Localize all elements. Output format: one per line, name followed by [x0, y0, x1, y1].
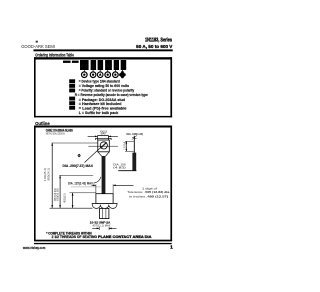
- outline box top bar: [34, 126, 172, 128]
- stud thread line 2: [105, 208, 107, 218]
- svg-text:R = Reverse polarity (anode to: R = Reverse polarity (anode to case) ver…: [75, 93, 148, 97]
- svg-text:GOOD-ARK SEMI: GOOD-ARK SEMI: [21, 44, 55, 50]
- note badge 6: [69, 106, 75, 110]
- overall height dim line: [51, 143, 53, 208]
- base height label: [63, 193, 67, 203]
- svg-text:0: 0: [92, 64, 94, 68]
- svg-text:in inches .495 (12.57): in inches .495 (12.57): [129, 194, 168, 198]
- stud: [100, 208, 109, 218]
- mid height dim line: [59, 175, 61, 208]
- svg-text:= Device type 1N4 standard: = Device type 1N4 standard: [79, 79, 120, 83]
- lead detail dim line: [126, 141, 128, 151]
- outline box bottom border: [34, 240, 172, 242]
- svg-text:DIA .048(1.22): DIA .048(1.22): [127, 132, 144, 136]
- svg-text:.630(16.00): .630(16.00): [55, 188, 59, 201]
- outline box left border: [34, 126, 36, 241]
- extension line mid: [59, 174, 93, 176]
- extension line can top: [70, 192, 96, 194]
- ordering box top bar: [34, 57, 172, 59]
- stud thread line 1: [102, 208, 104, 218]
- circle slash: [101, 142, 107, 148]
- note circle 3: [97, 70, 103, 77]
- svg-text:www.vishay.com: www.vishay.com: [22, 245, 46, 250]
- svg-text:PLANE CONTACT AREA DIA: PLANE CONTACT AREA DIA: [98, 235, 152, 239]
- svg-text:.950(24.1): .950(24.1): [46, 168, 50, 181]
- can body: [96, 194, 113, 204]
- svg-text:= Voltage rating 50 to 600 vol: = Voltage rating 50 to 600 volts: [79, 84, 129, 88]
- svg-text:MAX: MAX: [101, 132, 106, 136]
- part number box 3: [98, 60, 104, 70]
- body centerline: [88, 145, 118, 147]
- lead detail thick wire: [132, 153, 136, 171]
- can dia arrows: [92, 184, 134, 186]
- prefix label dash GPP: [63, 61, 71, 63]
- svg-text:8: 8: [99, 64, 101, 68]
- svg-text:8: 8: [115, 64, 117, 68]
- ordering box bottom border: [34, 116, 172, 118]
- part number box 5: [114, 60, 119, 70]
- note badge 3: [69, 89, 75, 93]
- svg-text:Ordering Information Table: Ordering Information Table: [35, 52, 74, 57]
- leader to glass body: [85, 143, 106, 163]
- note circle 4: [105, 70, 111, 77]
- note badge 5: [69, 101, 75, 105]
- ordering box left border: [34, 57, 36, 117]
- can dia extension right: [112, 184, 114, 193]
- lead detail seat line: [118, 170, 136, 172]
- note badge 2: [69, 84, 75, 88]
- prefix label dash 1N: [72, 61, 79, 63]
- svg-text:.437(11.1) MAX: .437(11.1) MAX: [92, 224, 111, 228]
- body: [98, 140, 110, 152]
- svg-text:(4.83): (4.83): [113, 166, 126, 170]
- svg-text:DIA .135(3.43) MAX: DIA .135(3.43) MAX: [68, 182, 94, 186]
- svg-text:2 1/2 THREADS OF SEATING: 2 1/2 THREADS OF SEATING: [52, 235, 98, 239]
- base height dim line: [72, 193, 74, 208]
- part number box 4: [105, 60, 112, 70]
- svg-text:50 A, 50 to 600 V: 50 A, 50 to 600 V: [136, 44, 172, 49]
- note badge 1: [69, 79, 75, 83]
- svg-text:.453(11.5): .453(11.5): [63, 193, 67, 203]
- svg-text:METAL SEAL DESIGN: METAL SEAL DESIGN: [46, 131, 65, 135]
- svg-text:L: L: [122, 64, 124, 68]
- header rule: [34, 49, 173, 51]
- note circle 1: [82, 70, 88, 77]
- lead detail ext ticks: [125, 141, 134, 151]
- footer rule: [34, 243, 172, 244]
- hex flange: [92, 204, 117, 209]
- svg-text:1N4: 1N4: [81, 64, 87, 68]
- mid height label: [53, 188, 60, 201]
- note circle 5: [113, 70, 119, 77]
- svg-text:00: 00: [106, 64, 111, 68]
- svg-text:Outline: Outline: [35, 121, 50, 126]
- cone dim arrows: [77, 154, 80, 156]
- extension line seating: [50, 207, 93, 209]
- glass seal circle: [100, 142, 107, 149]
- overall height label: [43, 168, 50, 181]
- leader to lead: [94, 177, 101, 183]
- extension line top: [52, 142, 98, 144]
- body cone: [98, 152, 110, 157]
- outline box right border: [170, 126, 172, 241]
- part number box 6: [121, 60, 127, 70]
- note circle 2: [90, 70, 96, 77]
- can dia extension left: [95, 184, 97, 193]
- lead main: [102, 156, 106, 194]
- note badge 4: [69, 97, 75, 101]
- extension line lead bottom grey: [71, 186, 101, 188]
- svg-text:1.0(25.4): 1.0(25.4): [123, 142, 127, 150]
- button cap: [96, 136, 111, 140]
- cap width dim arrows: [88, 135, 118, 137]
- svg-text:1N1183, Series: 1N1183, Series: [145, 38, 172, 44]
- part number box 2: [91, 60, 97, 70]
- svg-text:= Hardware kit included: = Hardware kit included: [79, 102, 122, 106]
- lead detail tick: [132, 136, 137, 140]
- note marker 6 filled: [119, 70, 126, 78]
- logo registered-mark dot: [36, 41, 38, 43]
- svg-text:L = Suffix for bulk pack: L = Suffix for bulk pack: [79, 111, 118, 115]
- stud dim bars: [92, 227, 116, 230]
- part number box 1: [80, 60, 89, 70]
- ordering box right border: [170, 57, 172, 117]
- lead detail thin wire: [133, 136, 135, 153]
- svg-text:DIA .290(7.37) MAX: DIA .290(7.37) MAX: [63, 164, 94, 168]
